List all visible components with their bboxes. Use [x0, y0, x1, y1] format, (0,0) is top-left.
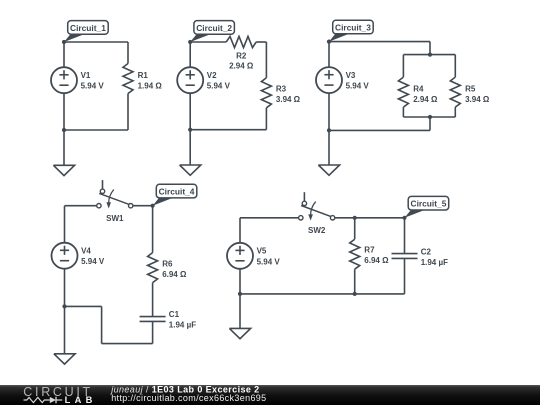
svg-text:3.94 Ω: 3.94 Ω: [276, 95, 301, 104]
svg-text:SW2: SW2: [308, 226, 326, 235]
svg-text:R2: R2: [236, 51, 247, 60]
svg-text:2.94 Ω: 2.94 Ω: [413, 95, 438, 104]
svg-text:6.94 Ω: 6.94 Ω: [364, 256, 389, 265]
svg-text:C2: C2: [421, 247, 432, 256]
svg-text:V4: V4: [81, 247, 91, 256]
svg-text:Circuit_4: Circuit_4: [159, 187, 195, 197]
svg-text:3.94 Ω: 3.94 Ω: [465, 95, 490, 104]
svg-text:5.94 V: 5.94 V: [81, 82, 105, 91]
svg-text:C1: C1: [169, 310, 180, 319]
svg-text:Circuit_2: Circuit_2: [196, 23, 232, 33]
svg-text:http://circuitlab.com/cex66ck3: http://circuitlab.com/cex66ck3en695: [111, 393, 266, 403]
svg-text:LAB: LAB: [65, 395, 97, 405]
svg-text:V1: V1: [81, 71, 91, 80]
svg-text:5.94 V: 5.94 V: [81, 257, 105, 266]
svg-text:SW1: SW1: [106, 214, 124, 223]
svg-text:R3: R3: [276, 85, 287, 94]
svg-text:Circuit_1: Circuit_1: [70, 23, 106, 33]
svg-text:5.94 V: 5.94 V: [207, 82, 231, 91]
svg-text:Circuit_5: Circuit_5: [411, 199, 447, 209]
svg-text:R6: R6: [162, 260, 173, 269]
svg-text:V3: V3: [346, 71, 356, 80]
svg-text:5.94 V: 5.94 V: [257, 257, 281, 266]
svg-text:1.94 µF: 1.94 µF: [169, 321, 196, 330]
svg-text:R7: R7: [364, 245, 375, 254]
svg-text:Circuit_3: Circuit_3: [335, 22, 371, 32]
svg-text:R1: R1: [138, 71, 149, 80]
svg-text:6.94 Ω: 6.94 Ω: [162, 270, 187, 279]
svg-text:R4: R4: [413, 85, 424, 94]
svg-text:V5: V5: [257, 247, 267, 256]
svg-text:2.94 Ω: 2.94 Ω: [229, 61, 254, 70]
svg-text:1.94 Ω: 1.94 Ω: [138, 81, 163, 90]
svg-text:1.94 µF: 1.94 µF: [421, 258, 448, 267]
svg-text:V2: V2: [207, 71, 217, 80]
svg-text:5.94 V: 5.94 V: [346, 82, 370, 91]
svg-text:R5: R5: [465, 85, 476, 94]
